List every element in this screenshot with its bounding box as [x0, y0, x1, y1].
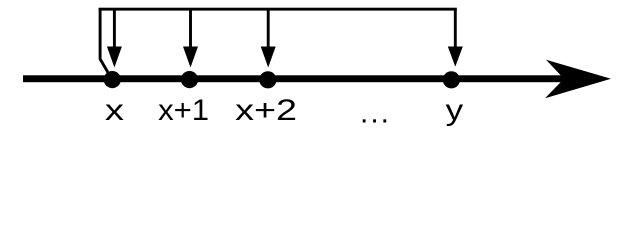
svg-text:...: ...: [360, 97, 391, 130]
point dot x: [104, 71, 121, 88]
svg-text:x+1: x+1: [158, 94, 209, 127]
top bracket line: [99, 8, 457, 11]
svg-text:x+2: x+2: [235, 94, 297, 127]
point dot x+2: [259, 71, 276, 88]
arrow to x+2: [261, 9, 276, 68]
number line: [23, 60, 611, 98]
point dot y: [443, 71, 460, 88]
left drop line from bracket to point x: [100, 8, 111, 79]
svg-text:y: y: [446, 94, 464, 127]
point dot x+1: [181, 71, 198, 88]
svg-text:x: x: [105, 94, 124, 127]
arrow to y: [448, 9, 463, 67]
arrow to x: [107, 9, 122, 68]
arrow to x+1: [183, 9, 198, 68]
